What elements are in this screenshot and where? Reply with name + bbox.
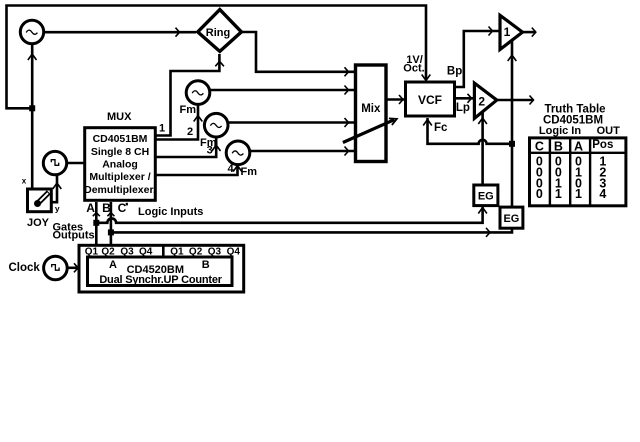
wire MUX pin 3 to Fm2 input — [155, 137, 216, 157]
label CD4051BM (table) — [543, 115, 603, 127]
svg-text:JOY: JOY — [27, 217, 50, 229]
wire Ring output to Mix input 1 — [241, 32, 354, 72]
svg-text:Lp: Lp — [456, 102, 470, 114]
label JOY — [27, 217, 50, 229]
svg-text:4: 4 — [599, 187, 606, 201]
arrowhead up into Fm1 — [194, 116, 203, 122]
svg-text:CD4051BM: CD4051BM — [93, 133, 148, 145]
svg-text:A: A — [86, 201, 95, 215]
wire amp 1 output — [523, 31, 537, 34]
oscillator Fm1 (sine) — [186, 81, 210, 105]
truth table grid — [530, 138, 626, 206]
arrowhead up into MUX B — [107, 213, 114, 217]
label Logic In — [539, 125, 581, 137]
amplifier 1 — [500, 15, 523, 49]
svg-text:y: y — [55, 203, 60, 213]
mixer Mix — [356, 65, 387, 162]
svg-text:Logic Inputs: Logic Inputs — [138, 206, 203, 218]
wire EG1 output riser to amp 2 control — [481, 113, 484, 186]
svg-text:Fm: Fm — [180, 104, 197, 116]
svg-text:3: 3 — [207, 145, 213, 157]
svg-text:Outputs: Outputs — [53, 230, 95, 242]
arrowhead amp 2 output end — [530, 96, 534, 105]
arrowhead right on OSC1-Ring wire — [176, 28, 180, 37]
counter Q output labels — [85, 247, 241, 258]
truth table rows — [536, 154, 606, 201]
counter inner box — [88, 257, 233, 286]
junction node gate A — [93, 220, 99, 226]
arrowhead right on gate line B — [486, 228, 490, 237]
oscillator clock (square) — [44, 256, 68, 280]
svg-text:Analog: Analog — [102, 159, 138, 171]
variable-control arrow through Mix — [343, 118, 397, 142]
svg-text:C: C — [118, 201, 127, 215]
label OUT — [597, 125, 621, 137]
wire gate line B to EG2 — [111, 229, 512, 232]
svg-text:Multiplexer /: Multiplexer / — [89, 171, 150, 183]
svg-text:Dual Synchr.UP Counter: Dual Synchr.UP Counter — [99, 274, 222, 286]
oscillator Fm2 (sine) — [204, 113, 228, 137]
label B (MUX logic input) — [102, 201, 111, 215]
svg-text:2: 2 — [187, 126, 193, 138]
amplifier 2 — [474, 83, 496, 118]
wire Fc feed from EG2 riser to VCF bottom — [428, 118, 513, 144]
arrowhead down into VCF top — [422, 75, 431, 81]
label A (MUX logic input) — [86, 201, 95, 215]
label Fm (osc Fm3) — [241, 166, 258, 178]
svg-text:1: 1 — [555, 187, 562, 201]
svg-text:Ring: Ring — [206, 27, 230, 39]
svg-text:C: C — [535, 140, 544, 154]
svg-text:1: 1 — [159, 122, 165, 134]
svg-text:Demultiplexer,: Demultiplexer, — [84, 184, 156, 196]
arrowhead right into Mix input 3 — [345, 118, 349, 127]
arrowhead right into amp 2 — [468, 94, 472, 103]
svg-text:1: 1 — [575, 187, 582, 201]
wire Fm3 output to Mix input 4 — [250, 150, 354, 153]
junction node (osc1 / top loop) — [29, 105, 35, 111]
arrowhead up into EG1 bottom — [478, 208, 487, 214]
label Truth Table — [544, 104, 605, 116]
ring modulator Ring — [198, 10, 242, 52]
arrowhead right into VCF — [399, 95, 403, 104]
wire MUX pin 1 to Ring bottom input — [155, 54, 219, 136]
wire counter QA2 to MUX B — [110, 202, 113, 245]
svg-text:MUX: MUX — [107, 111, 132, 123]
wire JOY y output to OSC2 — [51, 175, 57, 202]
svg-text:Single 8 CH: Single 8 CH — [91, 146, 149, 158]
label Fm (osc Fm2) — [200, 137, 217, 149]
svg-text:A: A — [574, 140, 583, 154]
arrowhead up on x riser — [28, 54, 37, 60]
svg-text:Logic In: Logic In — [539, 125, 581, 137]
label Fc — [434, 122, 448, 134]
arrowhead up on y riser — [53, 183, 62, 189]
label Logic Inputs — [138, 206, 203, 218]
label C' (MUX logic input) — [118, 201, 128, 215]
wire JOY x riser to oscillator 1 — [31, 44, 34, 190]
wire MUX pin 2 to Fm1 input — [155, 105, 198, 140]
arrowhead right into counter — [74, 263, 78, 272]
wire gate line A to EG1 — [96, 207, 482, 223]
wire counter QA1 to MUX A — [95, 202, 98, 245]
arrowhead amp 1 output end — [532, 28, 536, 37]
wire Fm2 output to Mix input 3 — [228, 121, 354, 124]
pin label 4 — [227, 163, 234, 175]
label y — [55, 203, 60, 213]
wire EG2 riser to amp 1 control — [511, 41, 514, 207]
label x — [22, 177, 27, 186]
arrowhead up into amp 2 — [478, 118, 487, 124]
label Bp — [447, 66, 462, 78]
label Gates Outputs — [53, 221, 95, 241]
arrowhead up into Ring bottom — [215, 61, 224, 66]
wire Fm1 output to Mix input 2 — [210, 89, 354, 92]
arrowhead right into Mix input 2 — [345, 86, 349, 95]
oscillator Fm3 (sine) — [226, 141, 250, 165]
label Clock — [9, 262, 41, 274]
svg-text:Fc: Fc — [434, 122, 448, 134]
arrowhead up into amp 1 — [508, 55, 517, 61]
multiplexer U1 CD4051BM — [84, 128, 156, 201]
arrowhead up into Fm2 — [212, 145, 221, 151]
pin label 2 — [187, 126, 193, 138]
arrowhead up into Fm3 — [233, 166, 242, 172]
joystick JOY — [28, 189, 52, 212]
svg-text:OUT: OUT — [597, 125, 621, 137]
svg-text:EG: EG — [503, 213, 519, 225]
svg-text:Bp: Bp — [447, 66, 462, 78]
svg-text:Clock: Clock — [9, 262, 41, 274]
svg-text:Pos: Pos — [592, 139, 613, 151]
truth table header — [535, 139, 613, 154]
svg-text:1: 1 — [504, 25, 511, 39]
envelope generator EG2 — [500, 207, 523, 228]
svg-text:2: 2 — [478, 95, 485, 109]
wire VCF Lp output to amp 2 — [455, 97, 474, 100]
wire clock to counter — [67, 266, 79, 269]
label Lp — [456, 102, 470, 114]
pin label 3 — [207, 145, 213, 157]
counter U2 CD4520BM outer box — [79, 245, 244, 292]
oscillator OSC1 (sine) — [20, 20, 43, 43]
arrowhead up into VCF Fc — [423, 120, 432, 126]
wire top loop from JOY-x node to VCF 1V/Oct input — [7, 6, 427, 109]
svg-text:0: 0 — [536, 187, 543, 201]
arrowhead up into MUX A — [93, 213, 100, 217]
svg-text:A: A — [109, 259, 117, 271]
svg-text:Oct.: Oct. — [403, 63, 424, 75]
wire VCF Bp output to amp 1 — [455, 31, 499, 87]
svg-text:B: B — [202, 259, 210, 271]
svg-text:B: B — [554, 140, 563, 154]
svg-text:Mix: Mix — [361, 103, 381, 115]
label MUX — [107, 111, 132, 123]
wire OSC1 output to Ring — [44, 31, 196, 34]
svg-text:Fm: Fm — [241, 166, 258, 178]
svg-text:B: B — [102, 201, 111, 215]
arrowhead right into amp 1 — [489, 27, 493, 36]
arrowhead right into Mix input 1 — [345, 67, 349, 76]
pin label 1 — [159, 122, 165, 134]
filter VCF — [406, 82, 455, 116]
svg-text:VCF: VCF — [418, 93, 442, 107]
oscillator OSC2 (square, MUX common input) — [43, 151, 66, 174]
counter section divider — [162, 245, 165, 257]
wire MUX pin 4 to Fm3 input — [155, 165, 237, 175]
label 1V/ Oct. — [403, 54, 424, 75]
label Fm (osc Fm1) — [180, 104, 197, 116]
junction node Fc/EG2 — [509, 141, 515, 147]
wire amp 2 output — [497, 99, 533, 102]
svg-text:x: x — [22, 177, 27, 186]
svg-text:EG: EG — [478, 191, 494, 203]
wire OSC2 output to MUX — [67, 162, 85, 165]
envelope generator EG1 — [474, 185, 498, 206]
wire Mix output to VCF — [386, 98, 405, 101]
arrowhead right into Mix input 4 — [345, 147, 349, 156]
junction node gate B — [108, 229, 114, 235]
